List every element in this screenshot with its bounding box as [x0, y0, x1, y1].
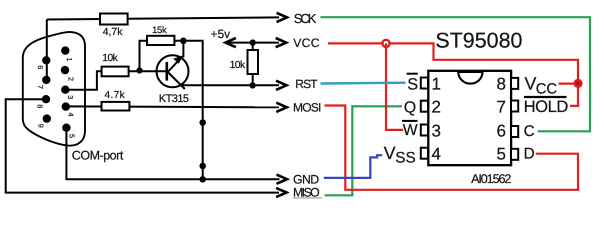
junction dot GND row: [199, 176, 206, 183]
svg-text:VCC: VCC: [293, 36, 319, 50]
IC pin stub 2: [421, 101, 428, 112]
svg-text:KT315: KT315: [159, 93, 189, 105]
svg-text:ST95080: ST95080: [435, 29, 522, 53]
pin 6: [42, 56, 50, 64]
svg-text:15k: 15k: [152, 24, 167, 35]
svg-text:SS: SS: [395, 149, 415, 166]
svg-text:2: 2: [432, 98, 441, 117]
svg-text:MISO: MISO: [293, 185, 320, 199]
svg-text:2: 2: [66, 77, 75, 81]
svg-text:3: 3: [66, 95, 75, 99]
red junction ring VCC: [382, 40, 389, 47]
svg-text:6: 6: [497, 121, 506, 140]
IC pin stub 6: [511, 126, 518, 137]
pin 7: [42, 76, 50, 84]
IC pin stub 5: [511, 149, 518, 160]
svg-text:7: 7: [36, 85, 45, 89]
pin 9: [43, 114, 51, 122]
wire RST row: [181, 84, 279, 86]
red wire MOSI to D: [324, 106, 578, 190]
svg-text:4: 4: [66, 113, 75, 117]
svg-text:V: V: [525, 74, 537, 94]
wire 10k to transistor base: [129, 70, 167, 72]
arrowhead GND: [277, 175, 288, 184]
svg-text:4,7k: 4,7k: [103, 27, 123, 38]
blue wire GND to VSS: [324, 155, 382, 178]
svg-text:8: 8: [36, 104, 45, 108]
svg-text:SCK: SCK: [294, 11, 317, 26]
arrowhead SCK: [277, 13, 288, 22]
junction dot on vertical: [199, 119, 206, 126]
junction dot RST row: [249, 82, 255, 88]
svg-text:MOSI: MOSI: [293, 101, 321, 115]
wire from pins 6-7 up to SCK row: [46, 20, 48, 81]
transistor collector diagonal: [167, 71, 185, 89]
IC U1 body: [428, 71, 511, 165]
svg-text:4.7k: 4.7k: [105, 90, 126, 101]
red wire VCC net: [328, 43, 578, 106]
resistor R1 4,7k: [100, 14, 128, 25]
wire 10k pullup top lead: [252, 43, 254, 51]
scan artifact under MISO: [293, 197, 323, 199]
green wire MISO to Q: [324, 106, 402, 195]
transistor emitter with arrow: [167, 57, 182, 73]
IC notch: [458, 72, 482, 84]
svg-text:9: 9: [36, 124, 45, 128]
svg-text:RST: RST: [295, 77, 318, 91]
IC pin stub 3: [421, 125, 428, 136]
svg-text:5: 5: [67, 134, 76, 138]
pin 3: [61, 86, 69, 94]
transistor Q1 KT315 circle: [157, 55, 189, 87]
junction dot on vertical lower: [199, 163, 206, 170]
pin 2: [61, 66, 69, 74]
wire GND row from pin 5: [66, 128, 279, 180]
wire pin3 to 10k: [65, 71, 103, 89]
svg-text:+5v: +5v: [211, 27, 231, 41]
arrowhead RST: [276, 81, 287, 90]
svg-text:D: D: [524, 146, 535, 163]
arrowhead +5v left: [225, 38, 236, 47]
wire 10k pullup bottom lead: [252, 74, 254, 85]
arrowhead MISO: [276, 188, 287, 197]
svg-text:4: 4: [432, 145, 441, 164]
resistor R3 15k: [147, 36, 174, 45]
svg-text:W: W: [403, 122, 418, 139]
svg-text:COM-port: COM-port: [72, 149, 124, 163]
blue wire RST to S: [321, 81, 406, 84]
svg-text:1: 1: [65, 58, 74, 62]
svg-text:8: 8: [497, 74, 506, 93]
resistor R4 4.7k: [102, 102, 130, 111]
svg-text:3: 3: [432, 121, 441, 140]
svg-text:HOLD: HOLD: [524, 97, 569, 116]
red wire VCC to pin 8 label: [559, 82, 579, 84]
wire SCK row: [47, 17, 279, 19]
svg-text:6: 6: [36, 65, 45, 69]
wire +5v VCC row: [227, 42, 279, 44]
pin 4: [62, 102, 70, 110]
pin 1: [61, 46, 69, 54]
wire emitter to collector node: [182, 41, 184, 58]
red wire to W pin 3: [386, 43, 403, 129]
wire MISO row from pin 8: [6, 99, 279, 192]
pin 8: [42, 95, 50, 103]
junction dot base node: [136, 67, 142, 73]
svg-text:CC: CC: [536, 82, 558, 98]
svg-text:AI01562: AI01562: [471, 172, 511, 186]
svg-text:Q: Q: [404, 99, 416, 116]
pin 5: [62, 124, 70, 132]
wire base node up to 15k: [140, 41, 149, 71]
arrowhead MOSI: [276, 103, 287, 112]
IC pin stub 8: [511, 78, 518, 89]
wire MOSI row: [66, 105, 279, 108]
svg-text:7: 7: [497, 98, 506, 117]
svg-text:10k: 10k: [230, 60, 246, 71]
COM-port connector outline: [23, 32, 85, 146]
green wire SCK to C: [320, 17, 590, 131]
resistor R5 10k vertical: [248, 50, 259, 74]
svg-text:5: 5: [497, 145, 506, 164]
svg-text:GND: GND: [293, 172, 319, 186]
IC pin stub 7: [511, 101, 518, 112]
svg-text:1: 1: [432, 74, 441, 93]
svg-text:C: C: [524, 123, 535, 140]
resistor R2 10k: [102, 67, 129, 77]
IC pin stub 1: [421, 78, 428, 89]
transistor base bar: [166, 62, 169, 81]
arrowhead VCC right: [276, 38, 287, 47]
wire 15k to collector node and down to GND row: [174, 41, 202, 180]
svg-text:10k: 10k: [102, 53, 118, 64]
junction dot +5v: [250, 39, 256, 45]
svg-text:S: S: [407, 76, 418, 94]
junction dot collector node: [180, 38, 187, 45]
IC pin stub 4: [421, 148, 428, 159]
red junction dot near chip: [573, 79, 582, 88]
svg-text:V: V: [384, 143, 396, 163]
